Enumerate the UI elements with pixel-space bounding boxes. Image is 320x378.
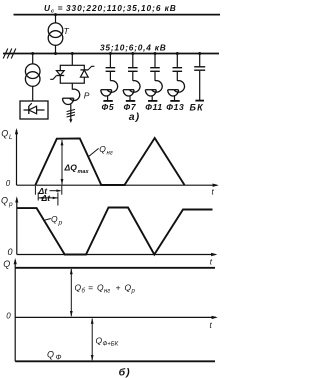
svg-text:+: + xyxy=(116,283,121,293)
label Qр with leader xyxy=(44,219,51,221)
wire: MV bus to TCR xyxy=(71,54,73,66)
svg-text:Δt: Δt xyxy=(41,193,52,203)
svg-text:=: = xyxy=(88,283,93,293)
svg-text:БК: БК xyxy=(190,103,205,113)
junction on MV bus at T xyxy=(54,52,57,55)
svg-text:Ф11: Ф11 xyxy=(145,102,163,112)
svg-text:Q: Q xyxy=(96,336,103,346)
thyristor VS1 (down) xyxy=(56,71,64,76)
wire: reactor P to load (continuation) xyxy=(70,104,72,120)
svg-text:Q: Q xyxy=(1,129,8,139)
axis Y (Q) xyxy=(14,260,16,361)
svg-text:Ф: Ф xyxy=(56,353,62,362)
svg-text:Q: Q xyxy=(47,350,54,360)
converter transformer xyxy=(25,64,40,79)
bus continuation hatch marks xyxy=(3,49,8,59)
svg-text:T: T xyxy=(64,26,70,36)
junction on HV bus xyxy=(54,13,57,16)
svg-text:Uc = 330;220;110;35,10;6 кВ: Uc = 330;220;110;35,10;6 кВ xyxy=(44,3,177,15)
svg-text:0: 0 xyxy=(6,312,11,321)
curve Qр (compensator reactive power) xyxy=(17,208,213,255)
svg-text:0: 0 xyxy=(8,247,13,257)
dimension QФ+БК xyxy=(91,319,93,361)
TCR anti-parallel thyristor pair loop xyxy=(60,65,84,83)
curve Qнг (load reactive power) xyxy=(35,138,184,185)
svg-text:Q: Q xyxy=(1,196,8,206)
curve Qб (total, constant) xyxy=(15,267,215,269)
svg-text:нг: нг xyxy=(104,289,110,295)
reactor P xyxy=(70,89,80,100)
svg-text:р: р xyxy=(8,201,13,208)
thyristor VS2 (up) xyxy=(80,69,88,71)
svg-text:Q: Q xyxy=(99,144,106,154)
transformer T xyxy=(48,23,63,38)
svg-text:Ф+БК: Ф+БК xyxy=(103,342,119,348)
node: HV bus Uc xyxy=(14,14,221,16)
svg-text:Q: Q xyxy=(97,283,104,293)
junction on MV bus at TCR branch xyxy=(71,52,74,55)
label Qнг with leader xyxy=(89,148,99,156)
wire: top bus to transformer T xyxy=(55,15,57,24)
wire: MV bus to converter transformer xyxy=(32,54,34,65)
svg-text:35;10;6;0,4 кВ: 35;10;6;0,4 кВ xyxy=(100,43,167,53)
junction on MV bus at converter branch xyxy=(31,52,34,55)
svg-text:б): б) xyxy=(119,367,131,378)
dimension ΔQmax xyxy=(61,140,63,185)
wire: TCR to reactor P xyxy=(71,83,73,89)
axis Y (QL) xyxy=(16,130,18,185)
svg-text:ΔQ: ΔQ xyxy=(64,163,78,173)
svg-text:Q: Q xyxy=(51,214,58,224)
wire: transformer T to MV bus xyxy=(55,45,57,53)
svg-text:0: 0 xyxy=(6,179,11,188)
dimension Δt (graph QL) xyxy=(34,186,36,195)
rectifier (thyristor converter) box xyxy=(20,101,48,119)
axis X (t), graph Q xyxy=(15,316,216,318)
dimension Qб xyxy=(70,269,72,316)
svg-text:Ф5: Ф5 xyxy=(102,102,115,112)
filter branch Ф7 xyxy=(123,52,140,101)
filter branch Ф11 xyxy=(145,52,162,101)
svg-text:нг: нг xyxy=(107,151,113,157)
axis Y (Qp) xyxy=(16,199,18,255)
svg-text:а): а) xyxy=(129,111,140,123)
dimension Δt (graph Qp) xyxy=(37,193,39,201)
wire: converter transformer to rectifier xyxy=(32,86,34,101)
svg-text:р: р xyxy=(58,220,63,227)
svg-text:max: max xyxy=(78,169,90,175)
axis X (t), graph Qp xyxy=(17,254,216,256)
filter branch Ф5 xyxy=(101,52,118,101)
svg-text:Q: Q xyxy=(75,283,82,293)
svg-text:Ф13: Ф13 xyxy=(166,102,184,112)
axis X (t), graph QL xyxy=(17,184,218,186)
svg-text:р: р xyxy=(131,289,136,295)
capacitor bank БК xyxy=(199,54,201,67)
svg-text:Q: Q xyxy=(3,259,10,269)
svg-text:L: L xyxy=(9,134,13,141)
svg-text:Q: Q xyxy=(125,283,132,293)
curve QФ+БК (filters, constant) xyxy=(15,360,215,362)
filter branch Ф13 xyxy=(168,52,185,101)
node: MV bus xyxy=(3,53,219,55)
svg-text:P: P xyxy=(84,91,90,101)
